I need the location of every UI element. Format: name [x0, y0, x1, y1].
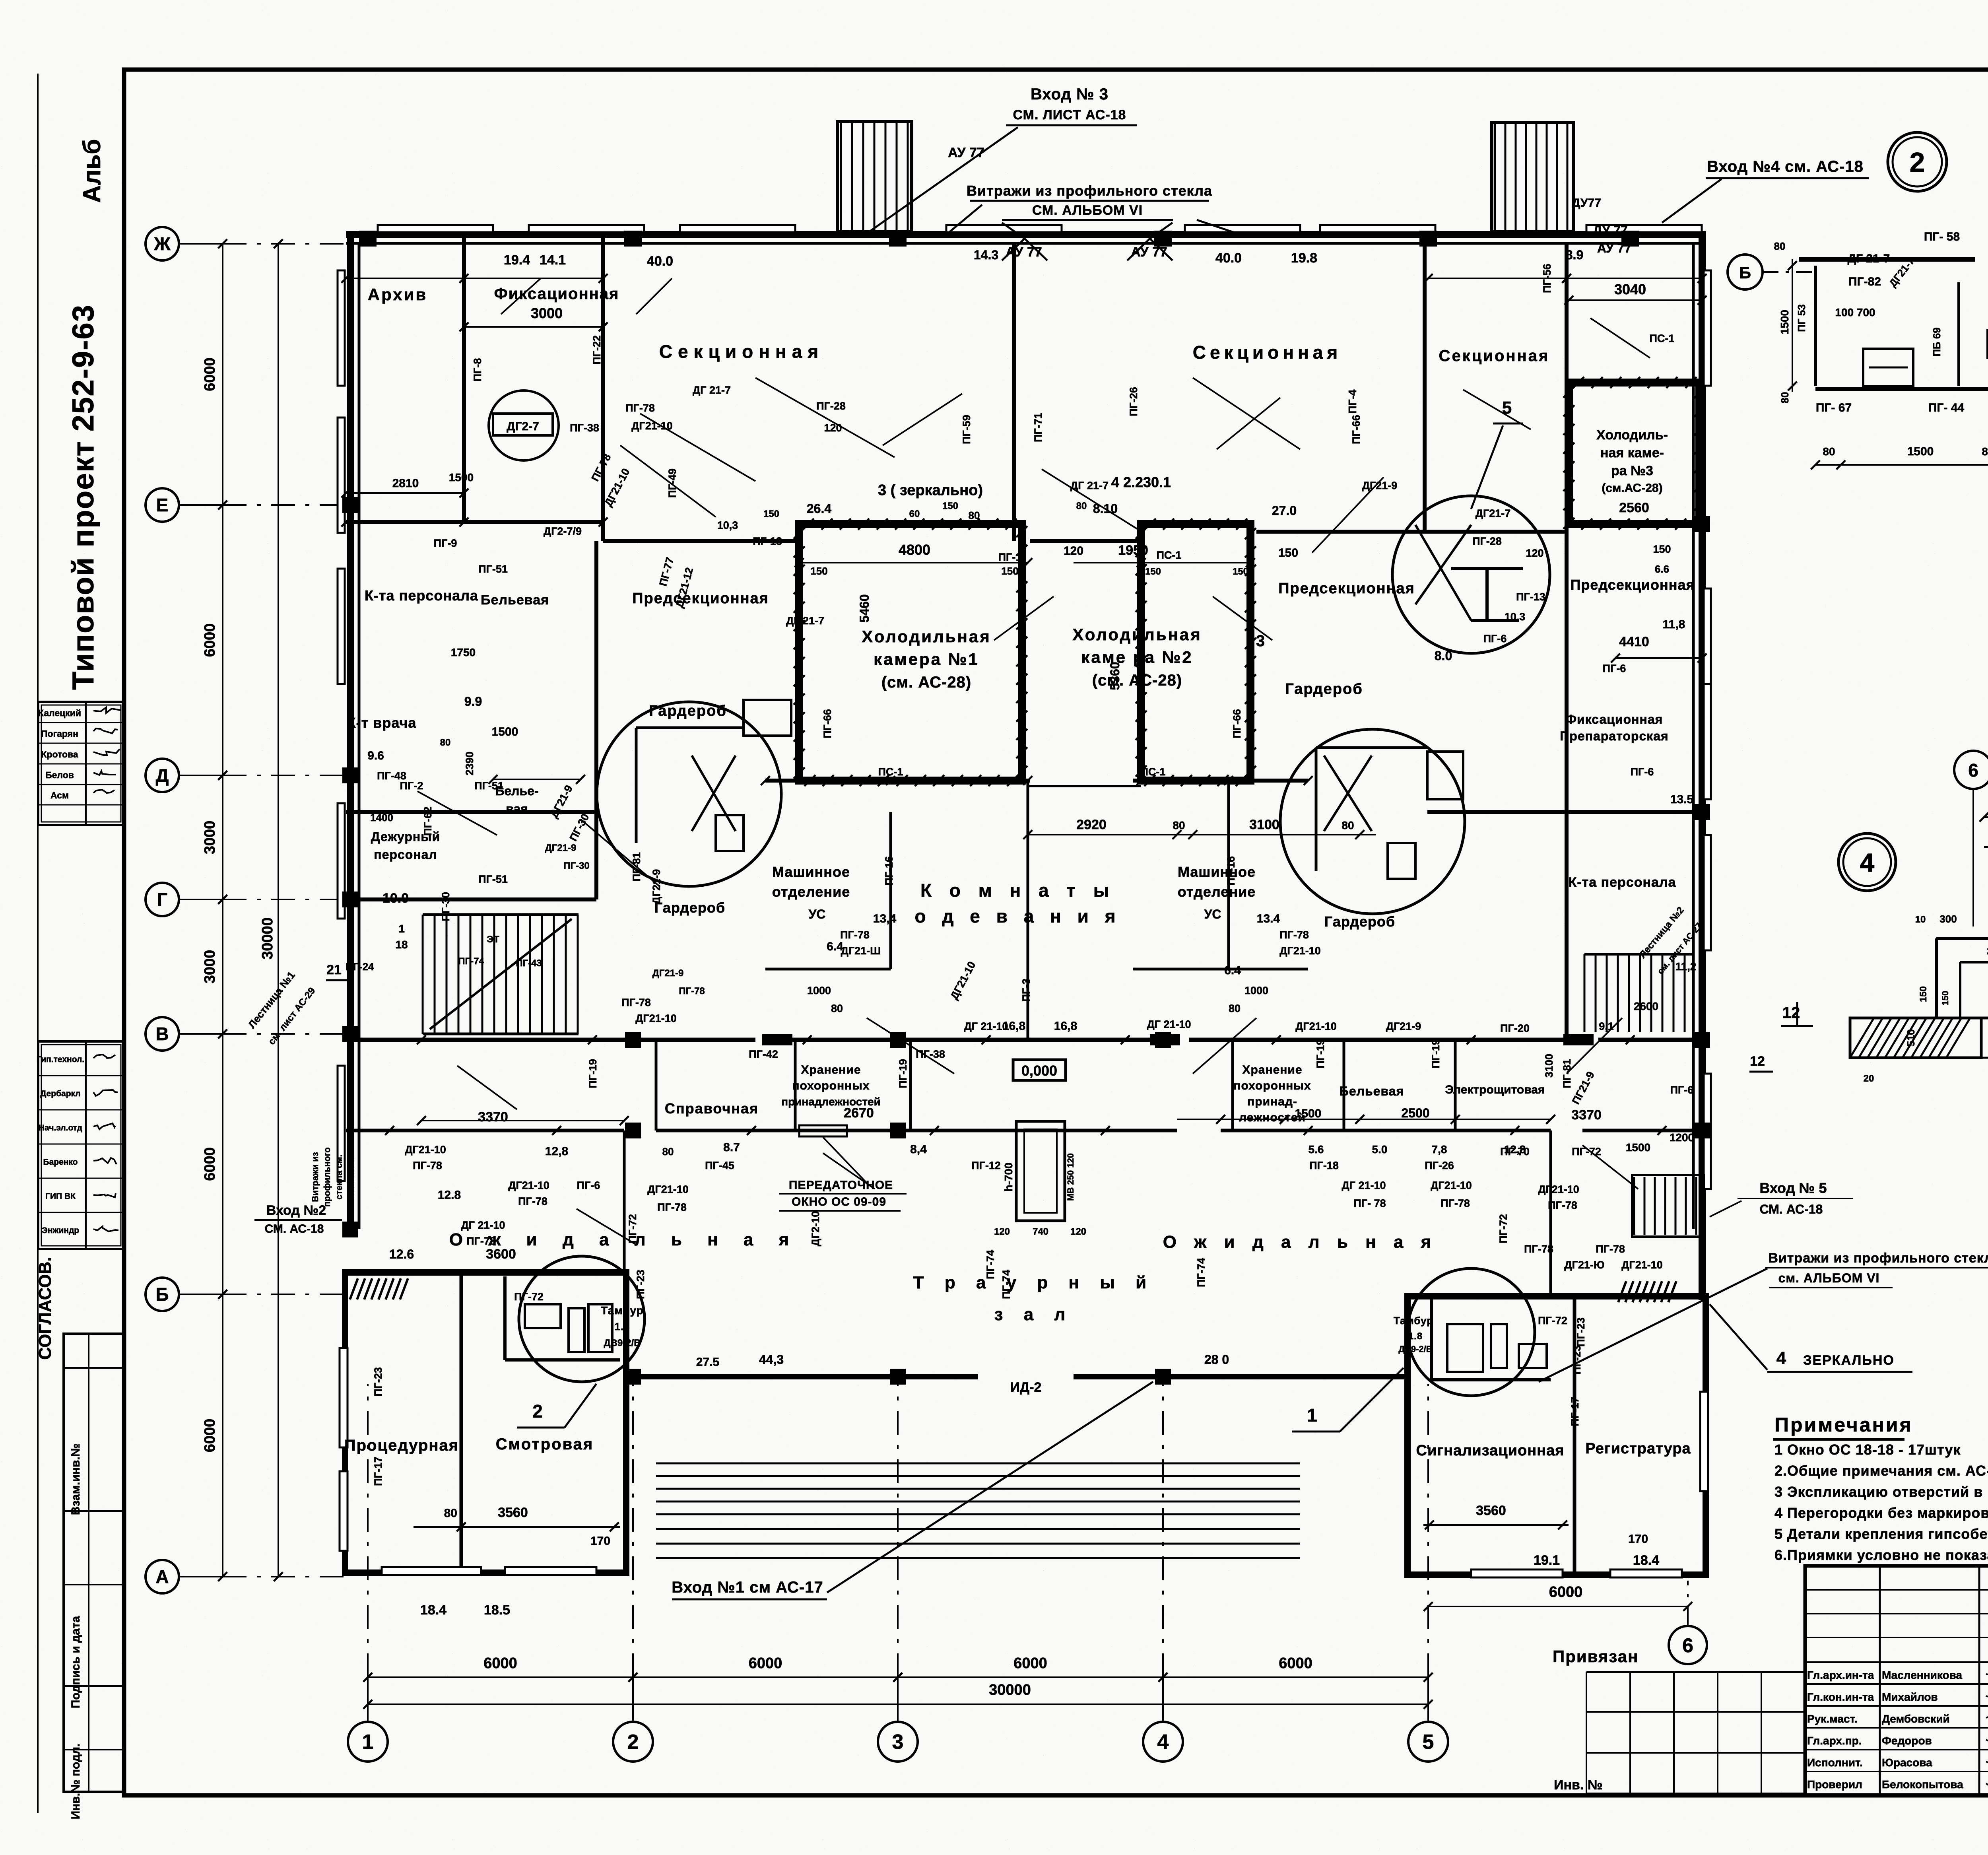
detail callout circle partition junction — [1392, 496, 1550, 653]
building outer wall right — [1699, 232, 1706, 1300]
dim 6000 between 5 and 6 — [1428, 1606, 1688, 1607]
axis circle 5 — [1408, 1722, 1448, 1762]
refrigerator room 3 hatched walls — [1569, 383, 1699, 524]
axis circle 4 — [1143, 1722, 1183, 1762]
detail circle 2 on tambour — [519, 1256, 645, 1382]
small detail circle left — [489, 390, 559, 460]
refrigerator room 1 hatched walls — [799, 524, 1022, 781]
detail 4 title circle — [1839, 833, 1896, 891]
left dimension chain — [222, 244, 223, 1577]
detail 2 title circle — [1888, 132, 1947, 191]
stamp table 1 — [38, 702, 124, 825]
scan noise overlay — [0, 0, 0, 0]
axis circle В — [146, 1017, 179, 1051]
overall 30000 vertical — [278, 244, 279, 1577]
detail circle 1 on tambour — [1408, 1268, 1535, 1396]
wing windows — [340, 1348, 348, 1447]
refrigerator room 2 hatched walls — [1141, 524, 1250, 781]
axis circle Б — [146, 1278, 179, 1311]
podium in hall — [1016, 1121, 1065, 1221]
stamp table 2 — [38, 1041, 124, 1249]
axis circle Ж — [146, 227, 179, 260]
door stubs row B — [762, 1034, 792, 1045]
detail 6 title circle — [1954, 751, 1988, 789]
extra dim chains in plan — [346, 278, 603, 279]
lower-right wing walls — [1408, 1296, 1706, 1575]
bottom dimension chain 6000s — [368, 1676, 1428, 1678]
title block outer — [1805, 1566, 1988, 1795]
0.000 level box — [1013, 1060, 1066, 1080]
axis circle 6 — [1669, 1626, 1707, 1664]
axis circle Д — [146, 759, 179, 792]
terrace steps — [656, 1463, 1300, 1465]
lower-left wing walls — [345, 1272, 626, 1573]
left wing entrance hatch — [350, 1278, 408, 1299]
axis circle Г — [146, 883, 179, 916]
V arrows at portico — [1002, 239, 1047, 260]
left wing tambour — [503, 1276, 507, 1360]
detail 2 bottom dims — [1815, 464, 1988, 466]
right wing tambour — [1430, 1296, 1433, 1380]
building outer wall top — [346, 231, 1706, 238]
axis circle А — [146, 1560, 179, 1593]
building outer wall left — [347, 232, 354, 1237]
axis circle 1 — [348, 1722, 388, 1762]
windows left wall — [338, 270, 345, 386]
main left staircase — [423, 915, 579, 1034]
leaders in section rooms — [755, 378, 895, 457]
title block left table — [1879, 1566, 1881, 1795]
top portico stairs (entrance 3) — [837, 122, 912, 232]
extra leaders bottom rooms — [417, 791, 497, 835]
column marks at wall junctions — [342, 497, 358, 513]
top right stairs (entrance 4) — [1492, 122, 1574, 232]
detail callout circle right wardrobe — [1280, 729, 1465, 914]
internal walls vertical — [462, 232, 466, 522]
detail 2 plan — [1799, 245, 1988, 414]
axis circle 2 — [613, 1722, 653, 1762]
paper left edge line — [37, 74, 39, 1813]
windows top wall — [378, 225, 493, 232]
internal walls horizontal — [346, 520, 603, 524]
detail callout circle left wardrobe — [597, 702, 781, 886]
detail 2 axis Б circle — [1728, 254, 1763, 289]
axis circle Е — [146, 488, 179, 522]
central south wall — [626, 1374, 978, 1379]
detail 4 corner plan — [1850, 930, 1988, 1058]
stamp column bottom (Инв №, Подпись и дата...) — [64, 1334, 124, 1792]
overall 30000 horizontal — [368, 1703, 1428, 1705]
entrance 5 stairs right — [1632, 1175, 1704, 1237]
right wing entrance hatch — [1618, 1281, 1676, 1302]
right mid staircase — [1584, 954, 1692, 1032]
axis circle 3 — [878, 1722, 918, 1762]
